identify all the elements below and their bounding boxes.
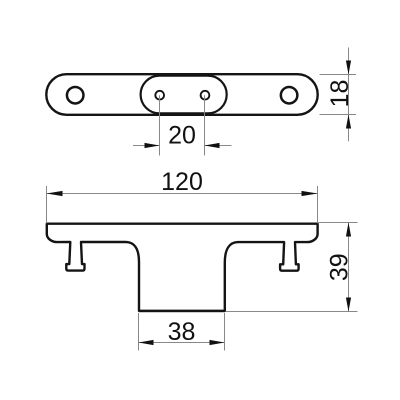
dim 38: right extension line: [224, 313, 226, 351]
svg-text:39: 39: [326, 253, 354, 281]
dim 18: vertical dimension line: [348, 48, 350, 142]
top view inner boss stadium: [141, 76, 227, 114]
svg-text:18: 18: [326, 80, 354, 108]
dim 39: vertical dimension line: [348, 223, 350, 312]
dim 38: dimension line: [139, 342, 225, 344]
front view stem bottom emphasis: [139, 310, 225, 312]
dim 38: left arrow: [139, 340, 154, 345]
dim 120: right extension line: [317, 186, 319, 223]
dim 120: dimension line: [47, 193, 318, 195]
dim 39: top extension line: [319, 222, 358, 224]
dim 39: bottom extension line: [226, 311, 358, 313]
dim 18: bottom arrow: [346, 115, 351, 129]
dim 18: top arrow: [346, 61, 351, 75]
svg-text:38: 38: [168, 318, 196, 346]
dim 20: left arrow: [145, 143, 160, 148]
dim 120: left arrow: [47, 191, 63, 196]
dim 120: right arrow: [302, 191, 318, 196]
svg-text:20: 20: [168, 122, 196, 150]
left small hole: [155, 91, 164, 100]
dim 20: right arrow: [205, 143, 220, 148]
dim 20: left extension line from hole center: [159, 95, 161, 155]
front view outline: [47, 224, 318, 311]
dim 18: top extension line: [320, 74, 357, 76]
top view outer pill: [46, 74, 317, 115]
right small hole: [201, 91, 210, 100]
dim 20: right extension line from hole center: [204, 95, 206, 155]
right large hole: [281, 87, 298, 104]
svg-text:120: 120: [161, 168, 203, 196]
dim 39: top arrow: [346, 223, 351, 237]
left large hole: [67, 87, 84, 104]
dim 38: left extension line: [138, 313, 140, 351]
dim 120: left extension line: [46, 186, 48, 223]
dim 18: bottom extension line: [320, 114, 357, 116]
dim 20: right dimension line segment: [205, 145, 232, 147]
dim 20: left dimension line segment: [133, 145, 160, 147]
dim 39: bottom arrow: [346, 298, 351, 312]
dim 38: right arrow: [210, 340, 225, 345]
